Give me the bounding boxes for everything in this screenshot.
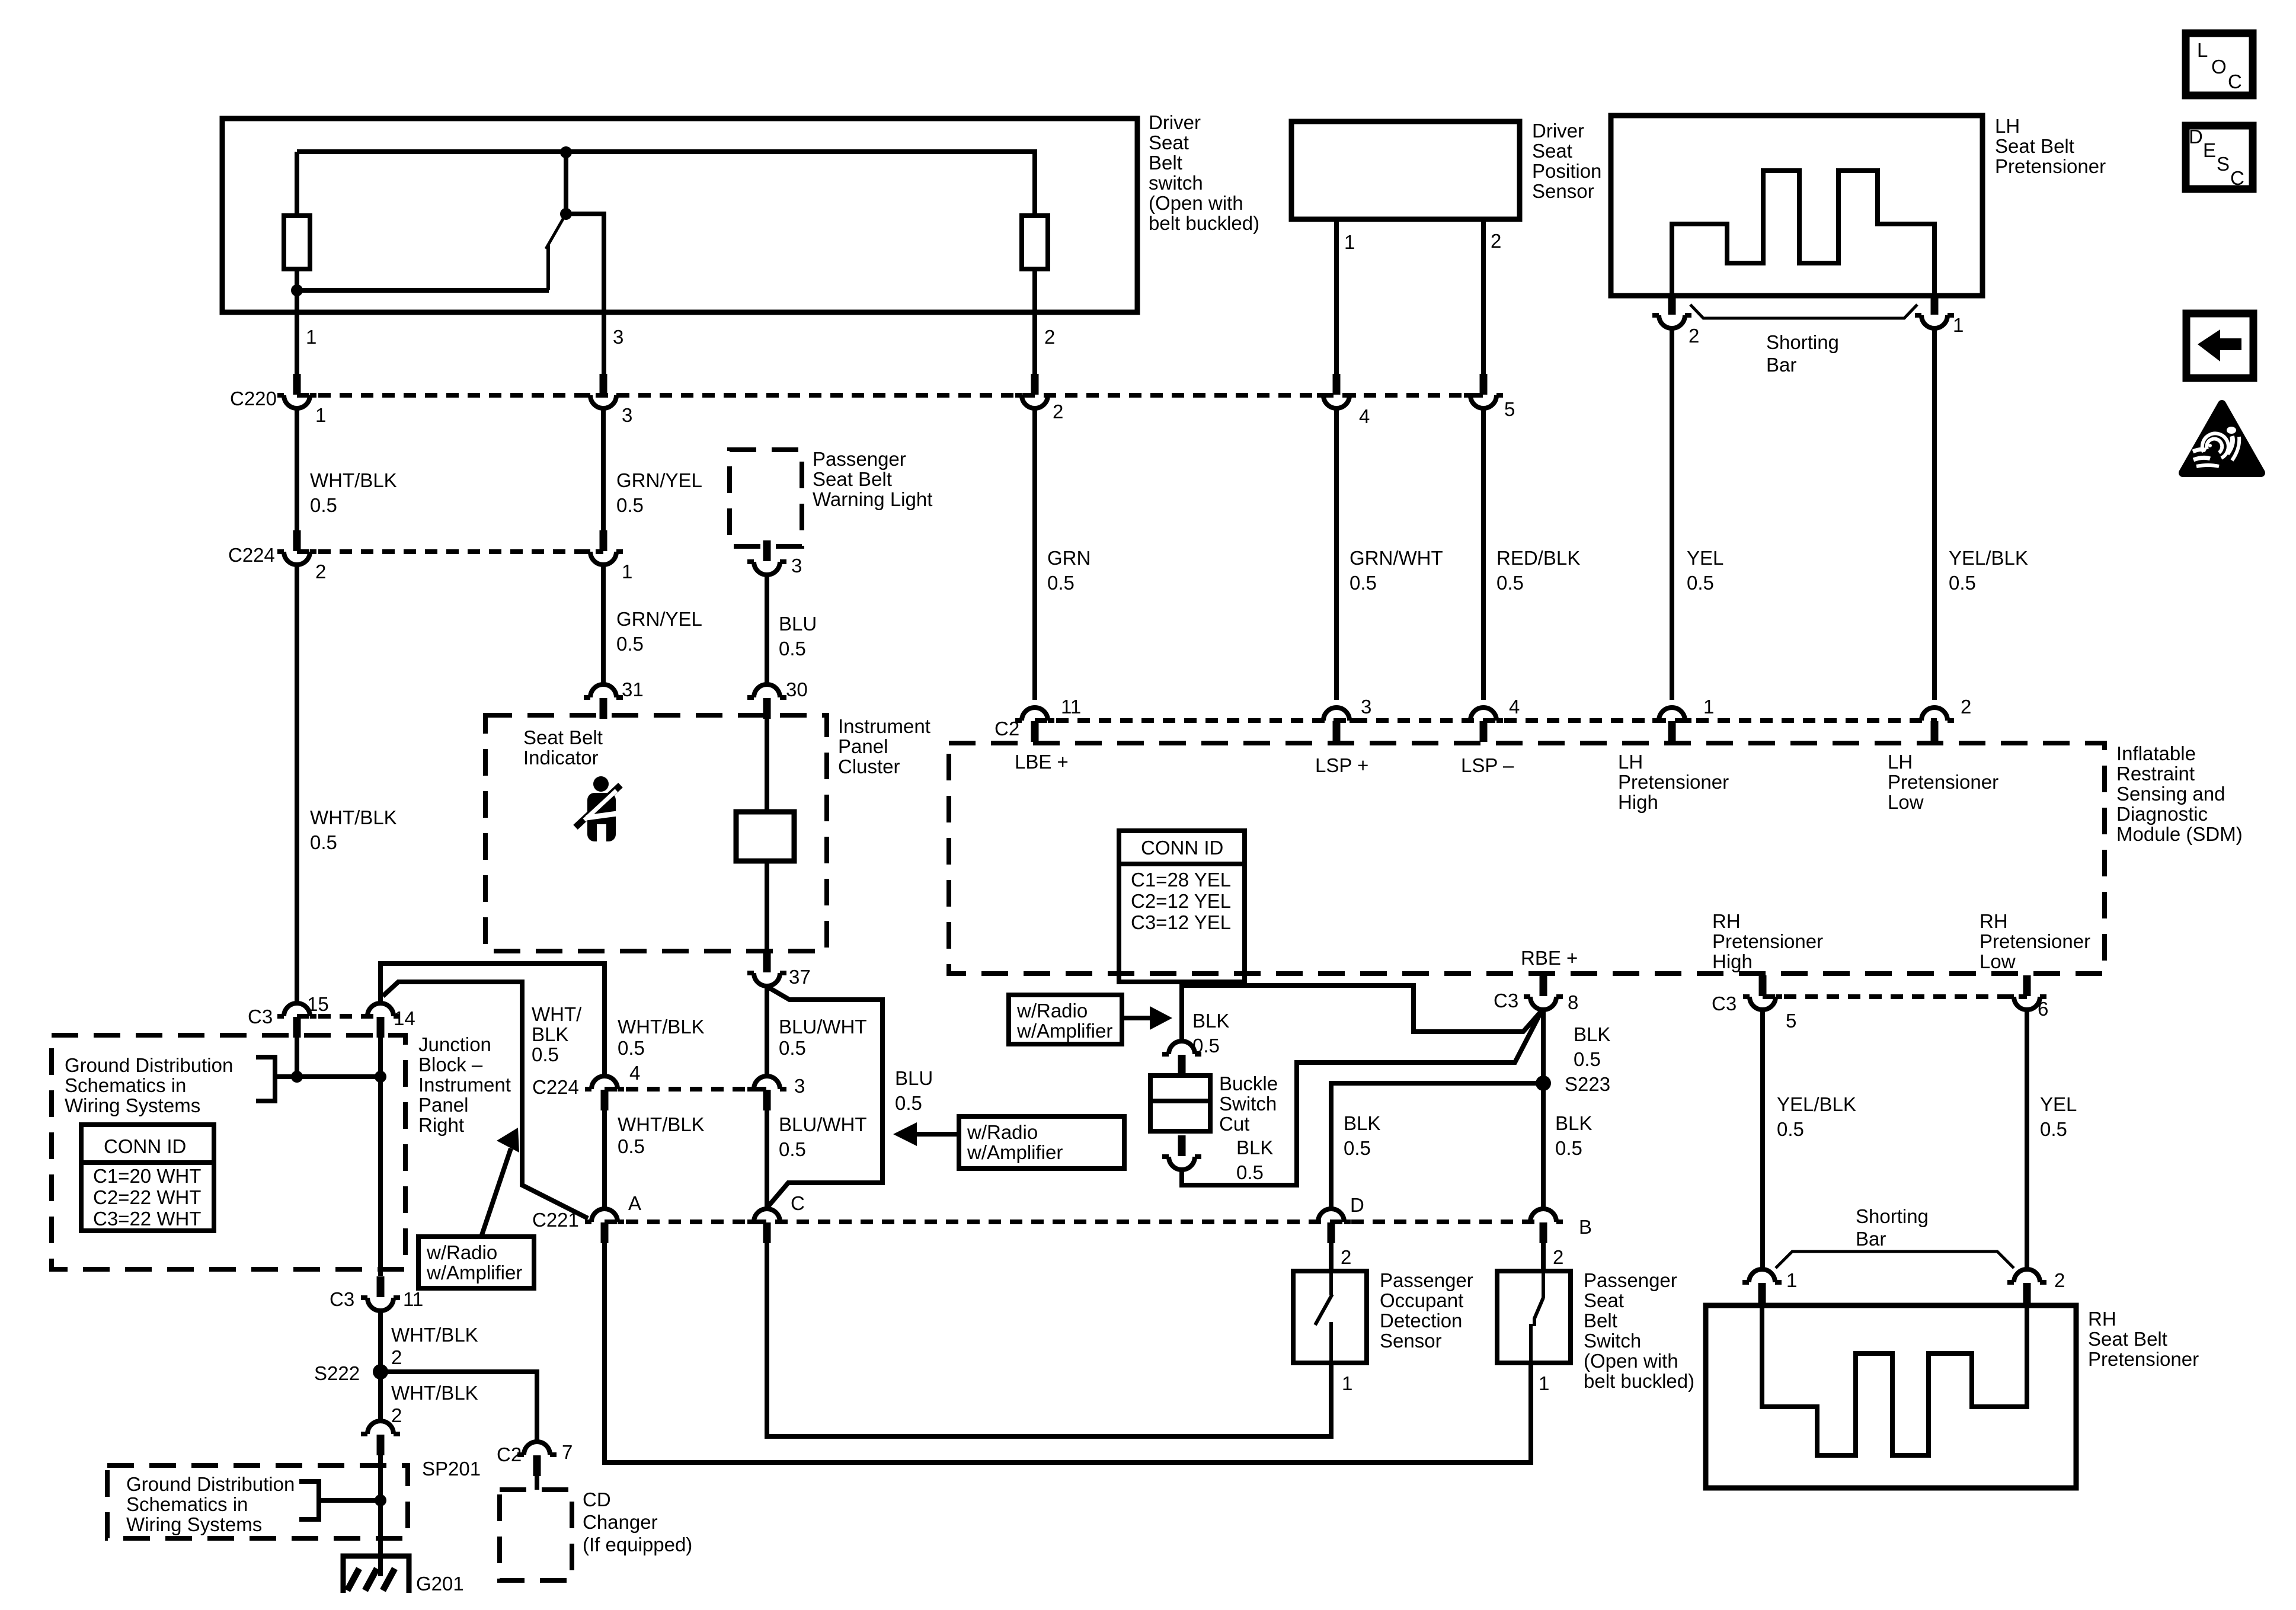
svg-text:Pretensioner: Pretensioner <box>1980 930 2090 952</box>
svg-text:14: 14 <box>394 1007 415 1029</box>
svg-text:LSP –: LSP – <box>1461 754 1514 776</box>
node switch top <box>560 146 572 158</box>
svg-text:S: S <box>2217 153 2230 175</box>
wire C3-11 to S222 <box>378 1311 383 1372</box>
svg-text:0.5: 0.5 <box>1350 572 1377 594</box>
node S222 <box>373 1364 388 1379</box>
svg-text:BLU/WHT: BLU/WHT <box>779 1113 867 1135</box>
svg-text:2: 2 <box>1491 230 1501 252</box>
svg-text:WHT/BLK: WHT/BLK <box>618 1016 705 1038</box>
wire GRN/YEL C220-3 to C224-1 <box>601 408 606 531</box>
svg-text:C2: C2 <box>994 718 1019 740</box>
wire ground trunk <box>378 1077 383 1276</box>
svg-text:0.5: 0.5 <box>1574 1048 1601 1070</box>
connector LH pretensioner pin 1 <box>1915 294 1954 328</box>
wire YEL/BLK LH-1 to C2-2 <box>1932 328 1937 700</box>
svg-text:(Open with: (Open with <box>1149 192 1243 214</box>
connector C224-3 <box>747 1076 786 1110</box>
svg-text:Changer: Changer <box>583 1511 658 1533</box>
connector C2-4 <box>1464 708 1503 742</box>
svg-text:YEL/BLK: YEL/BLK <box>1949 547 2028 569</box>
svg-text:Low: Low <box>1888 791 1924 813</box>
svg-text:Seat Belt: Seat Belt <box>2088 1328 2167 1350</box>
svg-text:Pretensioner: Pretensioner <box>1995 155 2106 177</box>
ground bracket (upper) <box>256 1057 380 1101</box>
svg-text:Module (SDM): Module (SDM) <box>2116 823 2243 845</box>
svg-text:C3: C3 <box>1712 993 1737 1014</box>
svg-text:2: 2 <box>1689 325 1699 347</box>
connector C224-4 <box>585 1076 624 1110</box>
svg-text:w/Amplifier: w/Amplifier <box>967 1141 1063 1163</box>
wire trunk to G201 <box>378 1465 383 1576</box>
RH seat belt pretensioner box <box>1706 1305 2076 1488</box>
svg-text:Sensor: Sensor <box>1532 180 1594 202</box>
svg-text:Buckle: Buckle <box>1219 1073 1278 1094</box>
svg-text:G201: G201 <box>416 1573 464 1595</box>
svg-text:LSP +: LSP + <box>1315 754 1368 776</box>
svg-text:w/Radio: w/Radio <box>1016 1000 1088 1022</box>
svg-text:C224: C224 <box>228 544 275 566</box>
row C220 dashed connector line <box>297 393 1483 398</box>
connector B <box>1524 1209 1563 1243</box>
svg-text:C224: C224 <box>532 1076 579 1098</box>
svg-text:2: 2 <box>391 1404 402 1426</box>
warning triangle <box>2183 404 2261 473</box>
svg-text:Detection: Detection <box>1380 1310 1462 1331</box>
junction block outline <box>380 964 605 1076</box>
connector LH pretensioner pin 2 <box>1652 294 1691 328</box>
switch blade vertical <box>546 245 550 290</box>
row C221 A/C/D/B dashed connector line <box>605 1219 1543 1224</box>
svg-text:Schematics in: Schematics in <box>126 1493 248 1515</box>
stub B to seat belt switch <box>1541 1243 1546 1271</box>
svg-text:2: 2 <box>1553 1246 1563 1268</box>
svg-text:C: C <box>2230 167 2244 189</box>
connector SP201 <box>361 1421 400 1455</box>
connector warning light 3 <box>747 540 786 575</box>
svg-text:C3=22 WHT: C3=22 WHT <box>93 1208 201 1230</box>
svg-text:Passenger: Passenger <box>813 448 906 470</box>
svg-text:0.5: 0.5 <box>618 1135 645 1157</box>
connector C220-2 <box>1015 374 1054 408</box>
connector buckle bottom <box>1162 1135 1201 1170</box>
svg-text:E: E <box>2203 139 2216 161</box>
connector C220-5 <box>1464 374 1503 408</box>
wire YEL LH-2 to C2-1 <box>1670 328 1674 700</box>
svg-text:Restraint: Restraint <box>2116 763 2195 785</box>
ground G201 <box>343 1556 409 1593</box>
svg-text:Wiring Systems: Wiring Systems <box>126 1513 262 1535</box>
node ground junction right <box>375 1071 386 1083</box>
resistor R-right (driver switch) <box>1022 216 1048 269</box>
svg-text:SP201: SP201 <box>422 1458 481 1480</box>
svg-text:BLK: BLK <box>1574 1023 1610 1045</box>
wire C3-14 pin drop <box>378 1038 383 1077</box>
svg-text:GRN/WHT: GRN/WHT <box>1350 547 1443 569</box>
svg-text:switch: switch <box>1149 172 1203 194</box>
svg-text:C1=20 WHT: C1=20 WHT <box>93 1165 201 1187</box>
svg-text:BLU: BLU <box>779 613 817 635</box>
wire WHT/BLK C220-1 to C224-2 <box>295 408 299 531</box>
svg-text:5: 5 <box>1504 398 1515 420</box>
svg-text:Seat: Seat <box>1584 1289 1624 1311</box>
wire C224-4 to C221-A <box>602 1110 607 1208</box>
cluster wire into lamp <box>765 715 769 812</box>
svg-text:Switch: Switch <box>1584 1330 1641 1352</box>
svg-text:Seat Belt: Seat Belt <box>813 468 892 490</box>
svg-text:LH: LH <box>1618 751 1643 773</box>
svg-text:0.5: 0.5 <box>1777 1118 1804 1140</box>
svg-text:Sensing and: Sensing and <box>2116 783 2225 805</box>
buckle switch cut box <box>1150 1076 1210 1131</box>
svg-text:37: 37 <box>789 966 811 988</box>
svg-text:RED/BLK: RED/BLK <box>1496 547 1580 569</box>
svg-text:WHT/BLK: WHT/BLK <box>391 1382 478 1404</box>
wire WHT/BLK C224-2 down to C3-15 <box>295 565 299 1003</box>
svg-text:BLK: BLK <box>1192 1010 1229 1032</box>
svg-text:WHT/BLK: WHT/BLK <box>310 469 397 491</box>
svg-text:CONN ID: CONN ID <box>1141 837 1223 859</box>
svg-text:WHT/: WHT/ <box>532 1003 582 1025</box>
svg-text:Pretensioner: Pretensioner <box>1888 771 1998 793</box>
svg-text:30: 30 <box>786 678 808 700</box>
svg-text:2: 2 <box>2054 1269 2065 1291</box>
row C3 15/14 dashed connector line <box>297 1014 380 1019</box>
svg-text:C2: C2 <box>497 1443 522 1465</box>
svg-text:Instrument: Instrument <box>418 1074 511 1096</box>
wire C221-A loop to passenger seat belt switch <box>605 1243 1531 1462</box>
svg-text:0.5: 0.5 <box>1687 572 1714 594</box>
connector C221-A <box>585 1209 624 1243</box>
connector C220-4 <box>1317 374 1356 408</box>
svg-text:Pretensioner: Pretensioner <box>1618 771 1729 793</box>
svg-text:belt buckled): belt buckled) <box>1149 212 1259 234</box>
svg-text:Schematics in: Schematics in <box>65 1074 186 1096</box>
svg-text:w/Amplifier: w/Amplifier <box>1016 1020 1112 1042</box>
resistor R-left (driver switch) <box>284 216 310 269</box>
row C2 dashed connector line (SDM top) <box>1035 718 1937 723</box>
svg-text:0.5: 0.5 <box>1496 572 1524 594</box>
w/Radio w/Amplifier box (BLU/WHT) <box>959 1116 1124 1169</box>
svg-text:4: 4 <box>629 1062 640 1084</box>
passenger occupant detection sensor box <box>1293 1271 1367 1363</box>
connector buckle switch <box>1162 1041 1201 1076</box>
svg-text:High: High <box>1618 791 1658 813</box>
stub SP201 to ground box <box>378 1455 383 1465</box>
svg-text:Junction: Junction <box>418 1033 491 1055</box>
connector cluster 37 <box>747 952 786 986</box>
connector C220-1 <box>277 374 316 408</box>
svg-text:LBE +: LBE + <box>1015 751 1069 773</box>
svg-text:2: 2 <box>1053 401 1063 422</box>
svg-text:Warning Light: Warning Light <box>813 488 932 510</box>
SDM dashed box <box>949 743 2105 974</box>
svg-text:Panel: Panel <box>418 1094 468 1116</box>
svg-text:3: 3 <box>613 326 623 348</box>
svg-text:1: 1 <box>1953 314 1964 336</box>
connector D <box>1312 1209 1351 1243</box>
svg-text:0.5: 0.5 <box>779 1138 806 1160</box>
svg-text:Panel: Panel <box>838 735 888 757</box>
svg-text:Occupant: Occupant <box>1380 1289 1463 1311</box>
svg-text:1: 1 <box>1344 231 1355 253</box>
svg-text:BLK: BLK <box>1555 1112 1592 1134</box>
svg-text:0.5: 0.5 <box>532 1044 559 1065</box>
svg-text:Seat: Seat <box>1149 132 1189 153</box>
svg-text:C1=28 YEL: C1=28 YEL <box>1131 869 1231 891</box>
svg-text:1: 1 <box>1342 1372 1352 1394</box>
svg-text:C2=22 WHT: C2=22 WHT <box>93 1186 201 1208</box>
connector C2-3 <box>1317 708 1356 742</box>
connector cluster 30 <box>747 684 786 719</box>
svg-text:(If equipped): (If equipped) <box>583 1534 692 1555</box>
svg-text:3: 3 <box>791 555 802 577</box>
svg-text:belt buckled): belt buckled) <box>1584 1370 1694 1392</box>
arrow to BLU/WHT wire <box>916 1132 959 1137</box>
wire S223 to D <box>1331 1083 1543 1209</box>
svg-text:Position: Position <box>1532 160 1601 182</box>
svg-text:Block –: Block – <box>418 1054 483 1076</box>
svg-text:0.5: 0.5 <box>779 1037 806 1059</box>
stub D to occupant sensor <box>1329 1243 1334 1271</box>
svg-text:Belt: Belt <box>1149 152 1182 174</box>
svg-text:0.5: 0.5 <box>1236 1161 1264 1183</box>
svg-text:0.5: 0.5 <box>616 494 644 516</box>
svg-text:D: D <box>2189 126 2203 148</box>
lamp box <box>736 812 794 861</box>
wire inner top bus <box>297 152 1035 216</box>
svg-text:0.5: 0.5 <box>310 831 337 853</box>
driver seat position sensor box <box>1291 121 1520 219</box>
svg-text:O: O <box>2211 56 2227 78</box>
wire RED/BLK C220-5 to C2-4 <box>1481 408 1486 700</box>
wire buckle loop to C3-8 <box>1182 1014 1540 1185</box>
RH shorting bar <box>1776 1251 2014 1268</box>
svg-text:BLU/WHT: BLU/WHT <box>779 1016 867 1038</box>
svg-text:15: 15 <box>307 993 329 1015</box>
svg-text:LH: LH <box>1995 115 2020 137</box>
svg-text:Driver: Driver <box>1532 120 1584 142</box>
wire YEL/BLK C3-5 to RH-1 <box>1760 1010 1765 1269</box>
svg-text:4: 4 <box>1359 405 1370 427</box>
svg-text:Indicator: Indicator <box>523 747 599 769</box>
svg-text:Wiring Systems: Wiring Systems <box>65 1094 200 1116</box>
svg-text:GRN: GRN <box>1047 547 1091 569</box>
warning triangle pictogram <box>2193 427 2239 466</box>
svg-text:S222: S222 <box>314 1362 360 1384</box>
svg-text:0.5: 0.5 <box>616 633 644 655</box>
svg-text:RBE +: RBE + <box>1521 947 1578 969</box>
svg-text:2: 2 <box>1341 1246 1351 1268</box>
svg-text:(Open with: (Open with <box>1584 1350 1678 1372</box>
svg-text:0.5: 0.5 <box>1047 572 1075 594</box>
connector C3-6 <box>2007 975 2046 1010</box>
node junction at resistor bottom <box>291 284 303 296</box>
svg-text:S223: S223 <box>1565 1073 1610 1095</box>
wire GRN/WHT C220-4 to C2-3 <box>1334 408 1339 700</box>
svg-text:3: 3 <box>794 1075 805 1097</box>
svg-text:1: 1 <box>315 404 326 426</box>
wire left resistor bottom lead to pin 1 <box>295 269 299 385</box>
svg-text:1: 1 <box>1703 696 1714 718</box>
node ground junction left <box>291 1071 303 1083</box>
svg-text:High: High <box>1712 950 1753 972</box>
svg-text:Seat Belt: Seat Belt <box>1995 135 2074 157</box>
svg-text:BLU: BLU <box>895 1067 933 1089</box>
svg-text:Instrument: Instrument <box>838 715 930 737</box>
connector C3-8 (RBE+) <box>1524 975 1563 1010</box>
row C3 5/6 dashed connector line <box>1763 994 2027 999</box>
svg-text:0.5: 0.5 <box>1949 572 1976 594</box>
svg-text:2: 2 <box>391 1346 402 1368</box>
CONN ID table (SDM) <box>1119 831 1245 982</box>
stub C2-7 to CD changer <box>535 1476 539 1490</box>
svg-text:31: 31 <box>622 678 644 700</box>
svg-text:0.5: 0.5 <box>618 1037 645 1059</box>
connector C3-11 <box>361 1276 400 1311</box>
wire BLU branch <box>768 987 882 1206</box>
svg-text:3: 3 <box>1361 696 1371 718</box>
wire LH pretensioner squib zigzag <box>1672 171 1934 296</box>
svg-text:2: 2 <box>315 561 326 582</box>
svg-text:D: D <box>1350 1194 1364 1216</box>
connector C224-1 <box>584 530 623 565</box>
svg-text:Low: Low <box>1980 950 2016 972</box>
junction block inner bus <box>383 982 588 1218</box>
svg-text:BLK: BLK <box>1236 1137 1273 1158</box>
svg-text:Passenger: Passenger <box>1584 1269 1677 1291</box>
svg-text:RH: RH <box>1980 910 2008 932</box>
svg-text:BLK: BLK <box>532 1023 568 1045</box>
svg-text:5: 5 <box>1786 1010 1796 1032</box>
svg-text:Right: Right <box>418 1114 464 1136</box>
svg-text:C3=12 YEL: C3=12 YEL <box>1131 911 1231 933</box>
svg-text:Belt: Belt <box>1584 1310 1617 1331</box>
svg-text:C2=12 YEL: C2=12 YEL <box>1131 890 1231 912</box>
svg-text:6: 6 <box>2038 998 2048 1020</box>
arrow to BLK wire <box>1122 1016 1151 1020</box>
connector C3-15 <box>277 1003 316 1038</box>
LH seat belt pretensioner box <box>1611 116 1982 296</box>
connector C2-2 <box>1915 708 1954 742</box>
seat belt indicator icon <box>575 776 621 842</box>
svg-text:8: 8 <box>1568 991 1578 1013</box>
connector C3-14 <box>361 1003 400 1038</box>
svg-text:Passenger: Passenger <box>1380 1269 1473 1291</box>
svg-text:11: 11 <box>1061 696 1081 718</box>
shorting bar (LH) <box>1690 305 1917 318</box>
svg-text:GRN/YEL: GRN/YEL <box>616 469 702 491</box>
svg-text:Bar: Bar <box>1856 1228 1886 1250</box>
ground distribution dashed box (upper) <box>52 1035 405 1269</box>
svg-text:1: 1 <box>306 326 316 348</box>
svg-text:w/Radio: w/Radio <box>967 1121 1038 1143</box>
CONN ID table (junction) <box>81 1125 214 1231</box>
svg-text:3: 3 <box>622 404 632 426</box>
svg-text:Bar: Bar <box>1766 354 1796 376</box>
svg-text:C220: C220 <box>230 388 277 409</box>
wire RH pretensioner squib zigzag <box>1762 1305 2027 1455</box>
svg-text:BLK: BLK <box>1344 1112 1380 1134</box>
svg-text:Cut: Cut <box>1219 1113 1249 1135</box>
svg-text:0.5: 0.5 <box>895 1092 922 1114</box>
svg-text:7: 7 <box>562 1441 573 1463</box>
passenger seat belt warning light dashed box <box>730 450 802 546</box>
svg-text:1: 1 <box>622 561 632 582</box>
svg-text:C3: C3 <box>1494 990 1518 1012</box>
w/Radio w/Amplifier box (junction) <box>418 1237 534 1288</box>
svg-text:Driver: Driver <box>1149 111 1201 133</box>
wire switch bottom horizontal <box>297 288 549 293</box>
svg-text:Sensor: Sensor <box>1380 1330 1442 1352</box>
svg-text:0.5: 0.5 <box>1555 1137 1582 1159</box>
svg-text:B: B <box>1579 1216 1592 1238</box>
svg-text:2: 2 <box>1044 326 1055 348</box>
wire sensor pin 1 <box>1334 219 1339 385</box>
svg-text:RH: RH <box>1712 910 1741 932</box>
connector C2-11 <box>1015 708 1054 742</box>
svg-text:Diagnostic: Diagnostic <box>2116 803 2208 825</box>
occupant sensor switch <box>1315 1271 1332 1363</box>
back arrow <box>2198 329 2241 361</box>
wire GRN C220-2 to C2-11 <box>1032 408 1037 700</box>
svg-text:Shorting: Shorting <box>1856 1205 1929 1227</box>
seat belt switch blade <box>1531 1271 1543 1363</box>
wire BLK buckle top to C3-8 <box>1182 985 1541 1041</box>
node switch pivot <box>560 208 572 220</box>
svg-text:Pretensioner: Pretensioner <box>1712 930 1823 952</box>
svg-text:Inflatable: Inflatable <box>2116 742 2196 764</box>
ground distribution dashed box (lower) <box>107 1465 408 1538</box>
row C224 dashed connector line <box>297 549 603 554</box>
instrument panel cluster dashed box <box>485 715 827 951</box>
wire GRN/YEL C224-1 to cluster 31 <box>601 565 606 684</box>
svg-text:11: 11 <box>403 1288 423 1310</box>
svg-text:RH: RH <box>2088 1308 2116 1330</box>
wire sensor pin 2 <box>1481 219 1486 385</box>
wire C3-15 pin drop <box>295 1038 299 1077</box>
svg-text:WHT/BLK: WHT/BLK <box>618 1113 705 1135</box>
svg-text:CONN ID: CONN ID <box>104 1135 186 1157</box>
node S223 <box>1536 1076 1551 1091</box>
svg-text:C3: C3 <box>330 1288 354 1310</box>
svg-text:0.5: 0.5 <box>2040 1118 2067 1140</box>
wire right resistor bottom to pin 2 <box>1032 269 1037 385</box>
svg-text:0.5: 0.5 <box>310 494 337 516</box>
svg-text:WHT/BLK: WHT/BLK <box>310 806 397 828</box>
svg-text:YEL: YEL <box>2040 1093 2077 1115</box>
svg-text:C: C <box>2228 71 2242 92</box>
wire 37 to C224-3 <box>765 986 769 1076</box>
back arrow box <box>2186 313 2253 378</box>
LOC box <box>2186 33 2253 95</box>
svg-text:CD: CD <box>583 1489 611 1510</box>
svg-text:Shorting: Shorting <box>1766 331 1839 353</box>
svg-text:Ground Distribution: Ground Distribution <box>126 1473 295 1495</box>
connector cluster 31 <box>584 684 623 719</box>
wire left resistor top lead <box>295 152 299 216</box>
cluster wire from lamp <box>765 861 769 951</box>
connector C2-7 <box>517 1442 557 1476</box>
svg-text:A: A <box>628 1192 641 1214</box>
svg-text:0.5: 0.5 <box>1344 1137 1371 1159</box>
svg-text:0.5: 0.5 <box>779 638 806 660</box>
svg-text:YEL: YEL <box>1687 547 1723 569</box>
svg-text:YEL/BLK: YEL/BLK <box>1777 1093 1856 1115</box>
connector C221-C <box>747 1209 786 1243</box>
svg-text:4: 4 <box>1509 696 1520 718</box>
svg-text:w/Radio: w/Radio <box>426 1241 497 1263</box>
